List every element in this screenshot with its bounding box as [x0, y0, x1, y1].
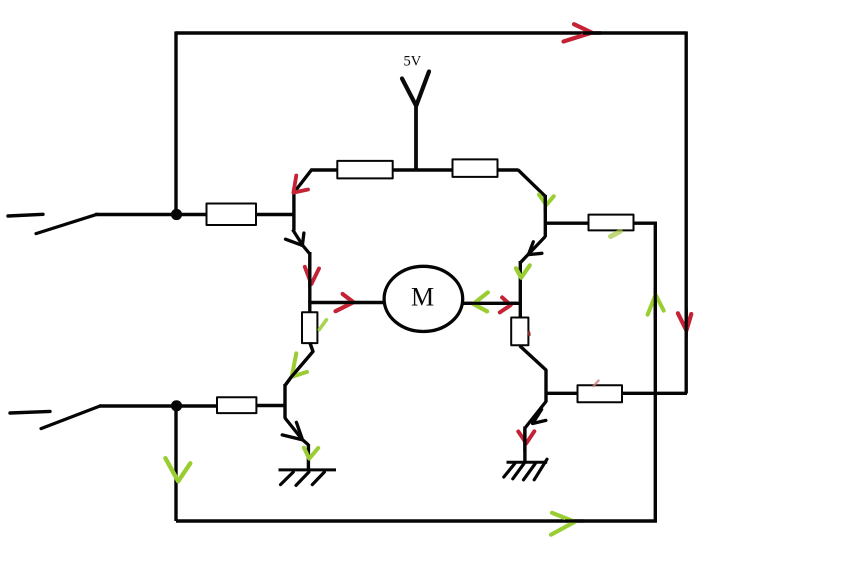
- arrow green G6a (mark on R3): [319, 320, 326, 330]
- arrow red A5 (pointing right on motor-right wire): [500, 297, 511, 312]
- arrow green G5 (pointing up on mid vertical): [648, 295, 664, 315]
- resistor R6 (top right): [453, 159, 498, 177]
- wire overdraw at A4 crossing: [345, 301, 361, 304]
- node B junction dot: [171, 400, 182, 411]
- wire R2 to right mid vertical: [634, 221, 656, 224]
- ground left hatch 1: [281, 472, 294, 485]
- resistor R8: [217, 397, 256, 413]
- arrow red A2 (on Q1 collector): [293, 176, 308, 193]
- transistor Q2 body vertical: [544, 195, 547, 237]
- switch S2 arm: [41, 406, 100, 429]
- transistor Q1 body vertical: [292, 191, 295, 231]
- ground left hatch 2: [296, 472, 309, 485]
- arrow red A3 (pointing down on emitter wire): [305, 267, 319, 284]
- transistor Q3 emitter arrowhead barb left: [282, 435, 302, 440]
- resistor R4 (vertical): [511, 318, 528, 346]
- arrow red A8 (faint mark on R7): [594, 381, 599, 387]
- wire right mid vertical: [654, 222, 657, 522]
- transistor Q3 body vertical: [283, 384, 286, 419]
- wire Q2 base to resistor R2: [545, 221, 589, 224]
- wire R8 to Q3 base: [256, 404, 285, 407]
- resistor R1: [207, 204, 257, 226]
- wire left upper vertical: [174, 31, 177, 214]
- wire top horizontal: [176, 31, 686, 34]
- arrow green G4 (mark under R2): [611, 231, 621, 236]
- transistor Q2 collector diagonal: [518, 170, 545, 197]
- ground right hatch 1: [504, 464, 515, 478]
- wire overdraw at A1 crossing: [583, 31, 601, 34]
- resistor R5 (top left): [337, 161, 392, 179]
- wire 5V vertical lead: [414, 103, 418, 171]
- arrow green G1 (on Q2 collector): [539, 195, 554, 205]
- wire bottom horizontal: [176, 519, 657, 522]
- wire switch S1 to resistor R1: [95, 213, 207, 216]
- supply V symbol left stroke: [402, 79, 416, 106]
- transistor Q3 emitter with arrow shaft: [285, 418, 308, 445]
- arrow red A7 (above right ground): [518, 431, 534, 443]
- wire overdraw at G9 crossing: [565, 519, 584, 522]
- wire overdraw at G3 crossing: [466, 302, 483, 305]
- switch S2 input stub: [10, 411, 50, 413]
- wire right outer vertical: [685, 31, 688, 393]
- mark red on R4 right edge: [528, 332, 531, 335]
- resistor R2: [589, 215, 634, 231]
- wire Q4 base right segment to outer vertical: [621, 392, 687, 395]
- motor-right wire: [462, 302, 522, 305]
- wire overdraw at G5 crossing: [654, 288, 657, 318]
- wire top bridge horizontal: [311, 168, 519, 171]
- transistor Q4 emitter arrowhead barb up: [533, 409, 542, 423]
- transistor Q1 emitter with arrow shaft: [293, 230, 310, 254]
- wire overdraw at A5 crossing: [502, 302, 517, 305]
- motor-left wire: [309, 301, 385, 304]
- wire overdraw at A6 crossing: [685, 308, 688, 337]
- node A junction dot: [171, 209, 182, 220]
- wire R1 to Q1 base: [256, 213, 294, 216]
- transistor Q1 emitter arrowhead barb left: [286, 239, 303, 245]
- svg-text:5V: 5V: [404, 53, 422, 69]
- arrow green G9 (pointing right on bottom wire): [551, 513, 575, 535]
- arrow green G8 (pointing down on left vertical): [165, 458, 190, 481]
- wire overdraw at A7 crossing: [523, 429, 526, 452]
- ground right top line: [507, 461, 548, 464]
- switch S1 input stub: [8, 214, 43, 216]
- ground left top line: [279, 468, 337, 471]
- ground left hatch 3: [312, 472, 324, 485]
- arrow green G2 (pointing down on emitter wire): [516, 265, 530, 277]
- ground right hatch 2: [513, 464, 524, 479]
- arrow green G6b (on Q3 collector diagonal): [292, 353, 307, 376]
- wire Q4 emitter stub to ground: [523, 427, 526, 463]
- transistor Q2 emitter diagonal: [520, 237, 545, 263]
- resistor R3 (vertical): [302, 312, 317, 343]
- wire Q2 emitter down to motor-right node: [519, 261, 522, 318]
- wire Q1 emitter down to motor-left node: [308, 252, 311, 303]
- wire switch S2 to resistor R8: [99, 404, 218, 407]
- wire left lower vertical: [174, 406, 177, 521]
- wire motor-left node into resistor R3: [308, 301, 311, 313]
- supply V symbol right stroke: [416, 72, 429, 106]
- wire R4 down to Q4 collector: [520, 346, 546, 403]
- transistor Q3 emitter arrowhead barb up: [296, 422, 302, 439]
- arrow red A1 (top wire, pointing right): [564, 24, 592, 41]
- wire Q3 emitter stub to ground: [307, 444, 310, 470]
- arrow green G3 (pointing left on motor-right wire): [473, 292, 488, 311]
- ground right hatch 4: [534, 459, 547, 480]
- wire Q4 base left segment: [546, 392, 579, 395]
- wire overdraw at A3 crossing: [308, 263, 311, 288]
- arrow green G7 (above left ground): [304, 448, 318, 459]
- arrow red A6 (pointing down on outer vertical): [678, 313, 691, 330]
- switch S1 arm: [36, 214, 97, 233]
- arrow red A4 (pointing right on motor-left wire): [336, 294, 354, 311]
- motor M1 body: [384, 266, 463, 331]
- transistor Q4 emitter diagonal: [525, 402, 546, 428]
- svg-text:M: M: [411, 283, 434, 312]
- transistor Q1 collector diagonal: [294, 170, 312, 193]
- transistor Q4 emitter arrowhead barb right: [533, 420, 546, 423]
- wire overdraw at G6b crossing: [285, 370, 297, 386]
- resistor R7: [578, 385, 623, 402]
- transistor Q2 emitter arrowhead barb right: [528, 253, 542, 254]
- transistor Q2 emitter arrowhead barb up: [529, 242, 534, 255]
- transistor Q1 emitter arrowhead barb up: [302, 233, 304, 245]
- wire overdraw at G1 crossing: [544, 197, 547, 212]
- ground right hatch 3: [524, 464, 536, 480]
- wire R3 down to Q3 collector: [285, 343, 313, 386]
